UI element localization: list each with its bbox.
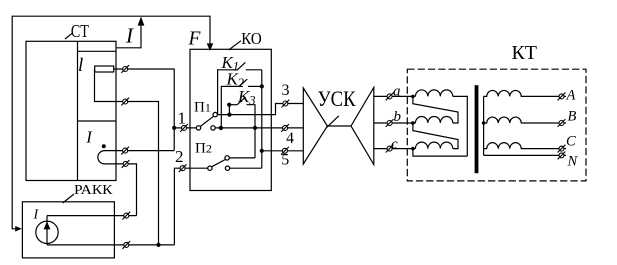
svg-text:a: a <box>393 84 401 100</box>
svg-text:КО: КО <box>241 29 262 48</box>
svg-text:b: b <box>394 109 402 125</box>
svg-text:4: 4 <box>286 130 294 147</box>
svg-text:СТ: СТ <box>71 21 89 41</box>
svg-text:П2: П2 <box>195 141 212 157</box>
svg-text:F: F <box>188 29 202 50</box>
svg-text:А: А <box>566 88 576 104</box>
svg-text:2: 2 <box>175 147 184 166</box>
svg-text:РАКК: РАКК <box>74 182 114 197</box>
svg-text:В: В <box>568 108 577 124</box>
svg-text:УСК: УСК <box>318 86 356 111</box>
svg-text:N: N <box>567 153 579 169</box>
svg-text:С: С <box>566 133 576 149</box>
svg-text:I: I <box>125 24 134 48</box>
svg-text:1: 1 <box>178 109 187 128</box>
svg-text:l: l <box>78 55 83 76</box>
svg-text:3: 3 <box>282 82 290 99</box>
svg-text:П1: П1 <box>194 100 211 116</box>
svg-text:5: 5 <box>281 152 289 169</box>
svg-text:c: c <box>391 136 398 152</box>
svg-text:КТ: КТ <box>512 43 538 64</box>
